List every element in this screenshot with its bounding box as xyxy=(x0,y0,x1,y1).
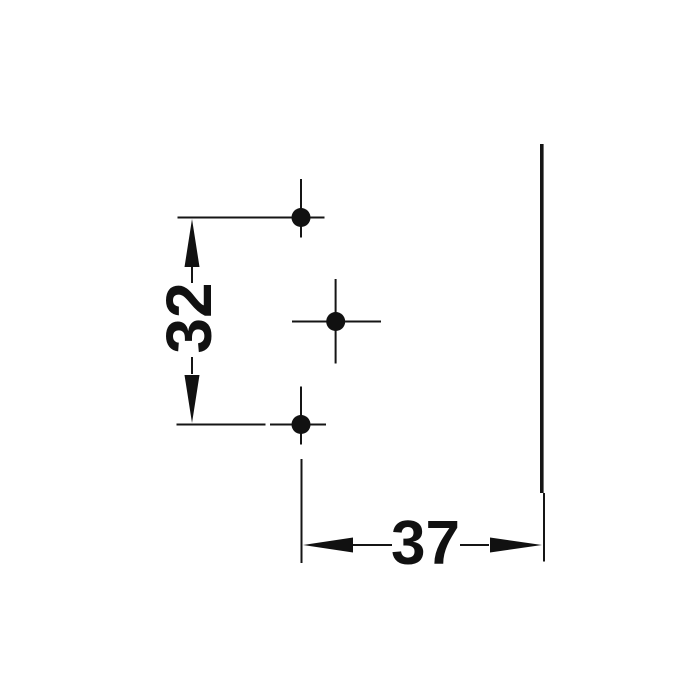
top hole centerline vertical xyxy=(300,179,302,238)
dim 37 line left segment xyxy=(353,544,392,546)
dim 37 arrowhead left xyxy=(303,538,353,553)
cross center dot xyxy=(326,312,345,331)
svg-text:37: 37 xyxy=(391,509,460,578)
bottom hole dot xyxy=(292,415,311,434)
dim 37 line right segment xyxy=(460,544,489,546)
cross centerline horizontal xyxy=(292,321,381,323)
panel edge (thick vertical line right) xyxy=(540,144,544,493)
top hole extension line horizontal xyxy=(178,217,325,219)
bottom hole extension line horizontal right segment xyxy=(270,424,326,426)
cross centerline vertical xyxy=(335,279,337,364)
extension line below bottom hole xyxy=(301,459,303,563)
dim 32 stem upper xyxy=(191,267,193,283)
dim 37 arrowhead right xyxy=(490,538,542,553)
top hole dot xyxy=(292,208,311,227)
dim 32 arrowhead up xyxy=(185,219,200,267)
extension line below panel edge xyxy=(543,493,545,562)
dim 32 arrowhead down xyxy=(185,375,200,423)
svg-text:32: 32 xyxy=(153,282,225,353)
dim 32 stem lower xyxy=(191,357,193,374)
bottom hole extension line horizontal left segment xyxy=(177,424,266,426)
bottom hole centerline vertical xyxy=(300,387,302,445)
